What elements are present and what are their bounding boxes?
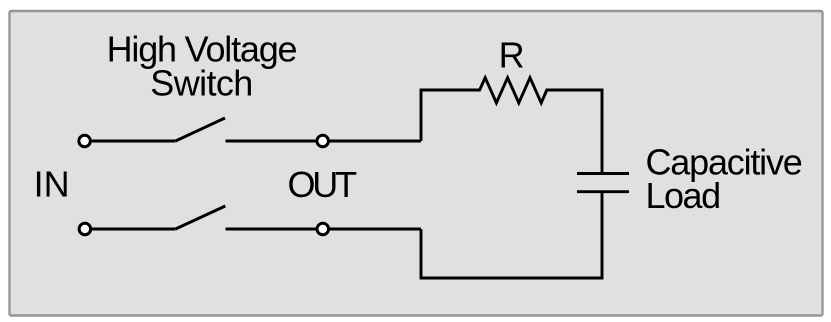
svg-text:IN: IN — [34, 164, 70, 205]
svg-text:R: R — [499, 34, 525, 75]
svg-text:Switch: Switch — [150, 62, 252, 103]
svg-text:Load: Load — [646, 175, 720, 216]
svg-text:OUT: OUT — [288, 164, 358, 205]
